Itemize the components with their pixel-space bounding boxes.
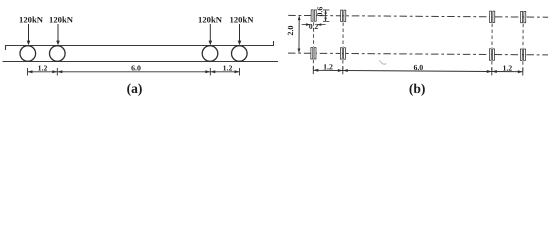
svg-text:120kN: 120kN — [19, 15, 44, 25]
svg-text:120kN: 120kN — [230, 15, 255, 25]
patch bottom-1 — [311, 48, 313, 59]
patch top-4 — [521, 11, 523, 22]
beam top line with end hooks — [6, 41, 274, 50]
scan artifact mark — [379, 60, 386, 64]
ground bottom line — [3, 61, 279, 63]
svg-text:6.0: 6.0 — [131, 64, 141, 73]
dimension 0.2 (patch width) — [302, 22, 326, 31]
svg-text:120kN: 120kN — [49, 15, 74, 25]
wheel W3 — [202, 46, 218, 62]
axle centerline top (dash-dot) — [288, 15, 548, 17]
patch bottom-2 — [340, 48, 342, 59]
wheel W4 — [232, 46, 248, 62]
load arrow P3 — [209, 24, 213, 45]
dashed extension lines — [313, 22, 523, 71]
svg-text:(b): (b) — [409, 81, 426, 96]
svg-text:120kN: 120kN — [198, 15, 223, 25]
patch top-1 — [311, 10, 313, 21]
wheel W2 — [50, 46, 66, 62]
svg-text:1.2: 1.2 — [38, 64, 48, 73]
svg-text:1.2: 1.2 — [502, 64, 512, 73]
dimension arrowheads (a) — [28, 70, 240, 73]
svg-text:1.2: 1.2 — [323, 62, 333, 71]
wheel W1 — [20, 46, 36, 62]
dimension line (b) — [313, 67, 523, 76]
dimension arrowheads (b) — [313, 69, 523, 73]
axle centerline bottom (dash-dot) — [288, 53, 548, 55]
load arrow P2 — [56, 24, 60, 45]
dimension 0.6 (patch height) — [315, 7, 329, 22]
svg-text:6.0: 6.0 — [413, 63, 423, 72]
load arrow P4 — [238, 24, 242, 45]
svg-text:0.2: 0.2 — [309, 22, 319, 31]
patch bottom-4 — [520, 49, 522, 60]
figure (a): vehicle elevation — [3, 41, 279, 62]
patch bottom-3 — [489, 49, 491, 60]
svg-text:0.6: 0.6 — [315, 7, 324, 17]
svg-text:(a): (a) — [127, 81, 143, 96]
patch top-2 — [341, 10, 343, 21]
svg-text:1.2: 1.2 — [223, 64, 233, 73]
dimension line (a) — [28, 68, 240, 76]
patch top-3 — [490, 11, 492, 22]
wheel patches — [311, 10, 526, 61]
svg-text:2.0: 2.0 — [286, 26, 295, 36]
dimension 2.0 vertical — [286, 15, 301, 53]
load arrow P1 — [27, 24, 31, 45]
